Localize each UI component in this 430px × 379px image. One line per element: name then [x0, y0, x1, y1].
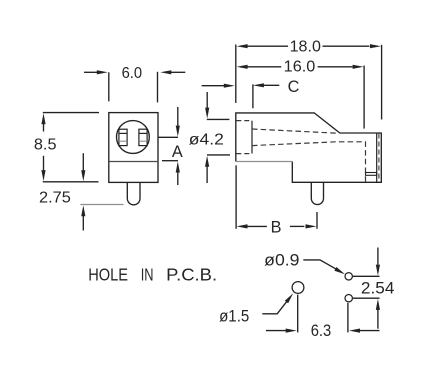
svg-text:2.75: 2.75 — [39, 189, 71, 206]
hidden taper bottom and cavity top — [252, 142, 366, 146]
right contact — [139, 129, 147, 145]
side view flange bottom (gray) — [236, 161, 292, 163]
dimension C — [202, 78, 300, 109]
svg-text:ø0.9: ø0.9 — [264, 250, 299, 269]
dimension B — [236, 165, 317, 236]
dimension 2.54 — [353, 248, 395, 329]
side view pin — [311, 182, 323, 204]
svg-text:C: C — [288, 78, 300, 96]
svg-text:6.0: 6.0 — [122, 65, 143, 82]
svg-text:ø4.2: ø4.2 — [189, 132, 224, 149]
flange back line — [251, 121, 253, 154]
svg-text:A: A — [172, 143, 183, 161]
left contact — [119, 129, 127, 145]
front view pin — [127, 182, 140, 204]
front view body — [109, 113, 158, 183]
hole 0.9 bottom — [345, 295, 352, 302]
dimension 6.0 — [84, 65, 185, 102]
side view outline — [236, 113, 381, 182]
hidden line between walls — [378, 134, 380, 183]
svg-text:6.3: 6.3 — [311, 321, 332, 340]
dimension 8.5 — [34, 113, 99, 182]
hidden hole bottom (flange) — [236, 153, 252, 155]
leader for 0.9 hole — [303, 260, 345, 274]
catch tab — [366, 173, 377, 176]
dimension 6.3 — [266, 295, 380, 340]
dimension 18.0 — [236, 39, 382, 120]
leader for 1.5 hole — [262, 293, 293, 314]
front view step line — [109, 161, 158, 163]
svg-text:2.54: 2.54 — [361, 278, 395, 297]
hidden hole top (flange) — [236, 120, 252, 122]
svg-text:18.0: 18.0 — [290, 39, 322, 56]
svg-text:B: B — [271, 219, 282, 237]
hidden cavity back — [365, 141, 367, 182]
svg-text:16.0: 16.0 — [284, 59, 316, 76]
LED hole circle — [116, 121, 149, 154]
dimension 2.75 — [39, 153, 124, 230]
hole 0.9 top — [345, 273, 352, 280]
hole 1.5 — [292, 282, 304, 294]
side view inner wall — [376, 133, 378, 182]
svg-text:HOLE: HOLE — [88, 265, 128, 285]
dimension A — [158, 107, 183, 185]
svg-text:8.5: 8.5 — [34, 137, 57, 154]
hidden taper top — [252, 129, 338, 133]
svg-text:ø1.5: ø1.5 — [219, 307, 249, 326]
svg-text:P.C.B.: P.C.B. — [166, 265, 217, 285]
dimension diameter 4.2 — [189, 92, 230, 183]
svg-text:IN: IN — [141, 265, 154, 285]
dimension 16.0 — [237, 59, 365, 129]
